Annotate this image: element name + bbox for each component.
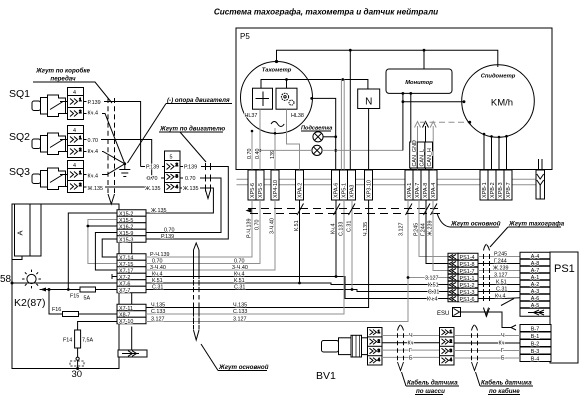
cabin cable band xyxy=(472,325,478,331)
wire Kch.4 from SQ2 xyxy=(84,152,125,164)
svg-text:ХРА-8: ХРА-8 xyxy=(423,183,429,198)
svg-text:ХР5-6: ХР5-6 xyxy=(250,183,256,198)
wire 3-Ch.40 row X7-17 xyxy=(146,200,275,270)
wire PS1-8 to A-8 xyxy=(478,263,520,265)
connector PS1-4 xyxy=(448,253,478,261)
P5 connector XP5-5 xyxy=(256,170,264,200)
engine harness end mark xyxy=(206,190,211,199)
terminal X7-17 xyxy=(117,267,146,275)
connector PS1-6 xyxy=(448,295,478,303)
wire G.244 from XPA-8 xyxy=(426,200,448,264)
k-line diagnostic wire xyxy=(237,178,537,180)
svg-text:0.70: 0.70 xyxy=(147,176,158,182)
svg-text:0.70: 0.70 xyxy=(88,138,99,144)
P5 connector XPA-1 xyxy=(405,170,413,200)
svg-text:PS1-6: PS1-6 xyxy=(460,297,475,303)
wire X7-10 to fuse F14 xyxy=(78,322,117,331)
terminal B-7 xyxy=(520,325,551,333)
CAN_L wire with arrow xyxy=(425,126,427,170)
svg-text:3.127: 3.127 xyxy=(425,276,439,282)
main harness band top mark xyxy=(194,243,200,250)
engine harness band ticks xyxy=(206,163,211,192)
svg-text:Ч.135: Ч.135 xyxy=(233,303,247,309)
terminal A-8 xyxy=(520,259,550,267)
svg-text:ХРА-4: ХРА-4 xyxy=(431,183,437,198)
wire Zh.239 from XPA-4 xyxy=(433,200,448,271)
indicator HL38 xyxy=(276,88,297,109)
svg-text:3-Ч.40: 3-Ч.40 xyxy=(232,265,248,271)
svg-text:Ч: Ч xyxy=(501,333,505,339)
sensor wire B xyxy=(382,356,440,358)
svg-text:К.51: К.51 xyxy=(428,283,439,289)
P5 connector XPA3 xyxy=(348,170,356,200)
svg-text:С.133: С.133 xyxy=(151,309,165,315)
svg-text:Ж.135: Ж.135 xyxy=(151,208,166,214)
svg-text:Г: Г xyxy=(501,348,504,354)
wire Zh.135 from SQ3 xyxy=(84,186,147,188)
block link wire xyxy=(131,293,133,305)
instrument harness arrow xyxy=(246,208,252,212)
svg-text:Р-Ч.139: Р-Ч.139 xyxy=(247,219,253,238)
wire X15-2 internal drop xyxy=(68,213,117,290)
wire A box to edge xyxy=(12,256,22,260)
wire Kch.4 from SQ1 xyxy=(84,114,125,164)
svg-text:Спидометр: Спидометр xyxy=(481,74,516,80)
wire F16 to X8-7 xyxy=(79,313,118,315)
wire monitor to XPA-1 xyxy=(410,93,412,170)
svg-text:ХРА3: ХРА3 xyxy=(350,185,356,198)
svg-text:по кабине: по кабине xyxy=(489,388,520,395)
svg-text:30: 30 xyxy=(72,369,83,380)
terminal X7-15 xyxy=(117,260,146,268)
wire P.139 after conn5 xyxy=(146,167,228,240)
terminal X15-2 xyxy=(117,210,146,218)
sensor connector block 2 xyxy=(440,328,455,366)
svg-text:Жгут основной: Жгут основной xyxy=(450,221,501,228)
diagnostic connector with chevrons xyxy=(536,170,545,199)
wire S.31 from XPA3 xyxy=(351,200,353,290)
terminal B-3 xyxy=(520,347,551,355)
junction twisted pair on feed bus xyxy=(341,78,344,81)
main harness vertical dashed band xyxy=(193,250,195,330)
main harness band row ticks xyxy=(194,254,200,324)
terminal B-1 xyxy=(520,332,551,340)
wire PS1-1 to A-1 xyxy=(478,277,520,279)
monitor box xyxy=(386,69,452,93)
terminal X15-5 xyxy=(117,216,146,224)
wire Kch.4 row X7-2 xyxy=(146,277,448,299)
switch SQ3 xyxy=(32,168,66,190)
svg-text:С.31: С.31 xyxy=(234,285,245,291)
ground 30 symbol xyxy=(70,361,84,366)
cabin wire B to B-4 xyxy=(454,357,520,359)
svg-text:3.127: 3.127 xyxy=(151,317,165,323)
svg-text:4: 4 xyxy=(73,128,76,134)
internal jumper X15-3 to X7-14 xyxy=(102,239,117,257)
chassis cable band xyxy=(398,325,404,331)
svg-text:3-Ч.40: 3-Ч.40 xyxy=(150,265,166,271)
cabin wire Ch to B-1 xyxy=(454,335,520,337)
svg-text:Жгут тахографа: Жгут тахографа xyxy=(508,221,565,228)
neutral indicator N box xyxy=(358,89,380,109)
svg-text:F14: F14 xyxy=(63,338,72,344)
svg-text:ХР4-10: ХР4-10 xyxy=(273,180,279,198)
connector PS1-1 xyxy=(448,274,478,282)
svg-text:Б: Б xyxy=(409,356,413,362)
block link wire xyxy=(131,242,133,254)
svg-text:ESU: ESU xyxy=(437,311,449,317)
wire K2 to fuse F15 xyxy=(49,289,80,291)
terminal X7-11 xyxy=(117,304,146,312)
wire P.245 from XPA-7 xyxy=(419,200,448,257)
internal jumper X15-9 to X7-17 xyxy=(95,233,117,271)
P5 connector XPA-7 xyxy=(413,170,421,200)
svg-text:К.51: К.51 xyxy=(496,280,507,286)
svg-text:3-Ч.40: 3-Ч.40 xyxy=(270,218,276,234)
svg-text:ХРА-2: ХРА-2 xyxy=(298,183,304,198)
svg-text:P5: P5 xyxy=(240,32,250,41)
wire K.51 row X7-6 xyxy=(146,283,448,285)
instrument harness dashed band xyxy=(248,208,440,210)
svg-text:Г.244: Г.244 xyxy=(494,259,507,265)
wire K2 down to F16 xyxy=(49,290,63,315)
output arrow connector box xyxy=(131,327,133,351)
fuse F16 xyxy=(63,312,79,317)
sensor wire Kch xyxy=(382,342,440,344)
terminal X15-9 xyxy=(117,229,146,237)
svg-text:SQ1: SQ1 xyxy=(9,88,30,100)
svg-text:С.31: С.31 xyxy=(347,221,353,232)
internal jumper X15-5/X16-2 to X7-15 xyxy=(88,220,117,264)
svg-text:(-) опора двигателя: (-) опора двигателя xyxy=(167,97,230,104)
svg-text:Кч: Кч xyxy=(499,341,505,347)
CAN_GND label box xyxy=(410,140,418,168)
wire P.139 before conn5 xyxy=(141,166,145,168)
svg-text:3.127: 3.127 xyxy=(494,273,508,279)
AC symbol xyxy=(271,122,284,127)
svg-text:Х7-7: Х7-7 xyxy=(119,288,130,294)
svg-text:SQ2: SQ2 xyxy=(9,131,30,143)
X7-2 terminator bar xyxy=(112,274,117,279)
terminal B-4 xyxy=(520,355,551,363)
terminal X15-3 xyxy=(117,236,146,244)
wire PS1-2 to A-2 xyxy=(478,284,520,286)
svg-text:F16: F16 xyxy=(52,307,61,313)
svg-text:Кч.4: Кч.4 xyxy=(495,294,505,300)
main harness band end mark xyxy=(194,330,200,340)
svg-text:С.31: С.31 xyxy=(496,287,507,293)
svg-text:0.70: 0.70 xyxy=(152,259,163,265)
svg-text:5А: 5А xyxy=(84,296,91,302)
backlight lamp 1 xyxy=(313,132,323,142)
P5 connector XPB-2 xyxy=(488,170,496,200)
connector block SQ1 xyxy=(60,88,84,120)
svg-text:передач: передач xyxy=(50,76,76,83)
terminal B-2 xyxy=(520,340,551,348)
terminal X7-10 xyxy=(117,317,146,325)
svg-text:Жгут по коробке: Жгут по коробке xyxy=(35,68,90,75)
svg-text:0.70: 0.70 xyxy=(247,149,253,160)
svg-text:Ж.135: Ж.135 xyxy=(183,186,198,192)
svg-text:BV1: BV1 xyxy=(316,370,336,382)
tachograph harness bundle marks xyxy=(484,244,490,251)
jog marks at wire crossings xyxy=(297,204,437,216)
terminal A-6 xyxy=(520,294,550,302)
P5 connector XPB-3 xyxy=(496,170,504,200)
wire PS1-7 to A-7 xyxy=(478,270,520,272)
fuse F15 xyxy=(80,287,96,292)
terminal X7-7 xyxy=(117,286,146,294)
tachometer circle xyxy=(241,62,313,134)
backlight lamp 2 xyxy=(312,145,322,155)
svg-text:Р.139: Р.139 xyxy=(161,234,174,240)
wire 0.70 row X7-15 xyxy=(146,200,260,264)
wire HL38 to XPA-2 xyxy=(287,109,300,170)
terminal X7-14 xyxy=(117,254,146,262)
wire HL37 to XP5-5 xyxy=(259,109,261,170)
engine connector 5 block xyxy=(165,151,181,193)
svg-text:58: 58 xyxy=(0,274,12,285)
terminal A-4 xyxy=(520,252,550,260)
engine mount ground junction xyxy=(123,162,126,165)
wire S.31 row X7-7 xyxy=(146,290,448,292)
wire 0.70 after conn5 xyxy=(146,178,221,233)
cabin wire Kch to B-2 xyxy=(454,342,520,344)
P5 connector XPA-2 xyxy=(296,170,304,200)
svg-text:Монитор: Монитор xyxy=(405,80,433,86)
wire P.139 from SQ1 xyxy=(84,102,141,167)
terminal A-5 xyxy=(520,301,550,309)
svg-text:Ж.135: Ж.135 xyxy=(145,186,160,192)
svg-text:0.70: 0.70 xyxy=(255,220,261,231)
wire F14 to ground 30 xyxy=(77,348,79,357)
svg-text:Жгут по двигателю: Жгут по двигателю xyxy=(159,126,226,133)
svg-text:по шасси: по шасси xyxy=(416,388,445,395)
svg-text:5: 5 xyxy=(170,155,173,161)
svg-text:ХРВ-7: ХРВ-7 xyxy=(506,182,512,198)
P5 connector XP5-1 xyxy=(340,170,348,200)
svg-text:K2(87): K2(87) xyxy=(14,297,46,309)
tach internal feed bus xyxy=(261,80,368,90)
terminal X7-6 xyxy=(117,280,146,288)
svg-text:ХРВ-3: ХРВ-3 xyxy=(498,182,504,198)
svg-text:HL38: HL38 xyxy=(291,113,304,119)
svg-text:Кч.4: Кч.4 xyxy=(427,297,437,303)
switch SQ1 xyxy=(32,95,66,117)
wire AC symbol to XP4-10 xyxy=(274,128,276,170)
wire PS1-3 to A-3 xyxy=(478,291,520,293)
terminal A-7 xyxy=(520,266,550,274)
connector PS1-2 xyxy=(448,281,478,289)
svg-text:N: N xyxy=(365,97,372,108)
wire 0.70 before conn5 xyxy=(146,177,152,179)
svg-text:4: 4 xyxy=(73,163,76,169)
svg-text:Кч.4: Кч.4 xyxy=(152,272,162,278)
svg-text:ХР5-1: ХР5-1 xyxy=(342,183,348,198)
ground engine mount xyxy=(119,164,130,177)
sensor connector block 1 xyxy=(368,328,383,366)
terminal A-1 xyxy=(520,273,550,281)
svg-text:4: 4 xyxy=(73,90,76,96)
P5 connector XPB-7 xyxy=(504,170,512,200)
svg-text:Ч: Ч xyxy=(409,333,413,339)
svg-text:ХР5-5: ХР5-5 xyxy=(258,183,264,198)
svg-text:Ж.239: Ж.239 xyxy=(493,266,508,272)
speed sensor BV1 xyxy=(322,335,368,357)
svg-text:SQ3: SQ3 xyxy=(9,166,30,178)
svg-text:Кч: Кч xyxy=(408,341,414,347)
terminal X16-2 xyxy=(117,223,146,231)
svg-text:Кабель датчика: Кабель датчика xyxy=(481,380,532,387)
svg-text:Р-Ч.139: Р-Ч.139 xyxy=(150,252,169,258)
wire Zh.135 after conn5 xyxy=(146,188,213,213)
svg-text:Кч.4: Кч.4 xyxy=(331,224,337,234)
wire F15 to X7-7 xyxy=(96,289,118,291)
connector PS1-3 xyxy=(448,288,478,296)
svg-text:Кабель датчика: Кабель датчика xyxy=(407,380,458,387)
svg-text:Кч.4: Кч.4 xyxy=(88,174,98,180)
wire tach to XP5-6 xyxy=(251,131,253,170)
P5 connector XP4-10 xyxy=(271,170,279,200)
wire ESU to B-7 xyxy=(461,312,512,328)
svg-text:К.51: К.51 xyxy=(152,278,163,284)
svg-text:Кч.4: Кч.4 xyxy=(88,149,98,155)
instrument cluster P5 box xyxy=(236,28,552,170)
svg-text:Р.245: Р.245 xyxy=(494,252,507,258)
CAN_L label box xyxy=(417,142,425,168)
svg-text:PS1: PS1 xyxy=(554,263,575,275)
fuse F14 xyxy=(75,330,81,348)
terminal X7-2 xyxy=(117,273,146,281)
connector PS1-8 xyxy=(448,260,478,268)
svg-text:А: А xyxy=(16,230,25,235)
svg-text:Ж.135: Ж.135 xyxy=(88,186,103,192)
switch SQ2 xyxy=(32,133,66,155)
svg-text:Х7-10: Х7-10 xyxy=(119,319,133,325)
wire tach edge down to XPA-6 xyxy=(313,98,336,170)
svg-text:3.127: 3.127 xyxy=(399,223,405,237)
l-line diagnostic wire xyxy=(237,184,537,186)
wire PS1-6 to A-6 xyxy=(478,298,505,300)
svg-text:7,5А: 7,5А xyxy=(82,338,93,344)
svg-text:Тахометр: Тахометр xyxy=(262,68,292,74)
relay contact arrow xyxy=(40,289,49,291)
body controller box xyxy=(12,204,119,369)
wire Kch.4 from SQ3 xyxy=(84,164,125,175)
svg-text:Ч.135: Ч.135 xyxy=(151,303,165,309)
wire jog to A-6 xyxy=(505,297,520,300)
wire 0.70 from SQ2 xyxy=(84,140,152,179)
wire K.51 from XPA-2 xyxy=(299,200,301,283)
dashed optional CAN link to speedometer xyxy=(420,121,470,123)
svg-text:Система тахографа, тахометра и: Система тахографа, тахометра и датчик не… xyxy=(214,8,438,17)
svg-text:Кч.4: Кч.4 xyxy=(234,272,244,278)
P5 connector XPA-6 xyxy=(332,170,340,200)
wire Kch.4 from XPA-6 xyxy=(335,200,337,277)
wire bus to monitor xyxy=(423,50,425,69)
speedometer output wires xyxy=(484,134,507,170)
svg-text:Ч.135: Ч.135 xyxy=(363,222,369,236)
svg-text:0.70: 0.70 xyxy=(185,176,196,182)
svg-text:0.70: 0.70 xyxy=(164,228,175,234)
wire S.133 row X8-7 xyxy=(146,200,344,314)
P5 connector XP3-10 xyxy=(365,170,373,200)
wire PS1-4 to A-4 xyxy=(478,256,520,258)
svg-text:В-4: В-4 xyxy=(531,357,539,363)
speedometer circle xyxy=(462,65,535,138)
svg-text:ХР3-10: ХР3-10 xyxy=(367,180,373,198)
svg-text:ХРА-6: ХРА-6 xyxy=(334,183,340,198)
svg-text:С.133: С.133 xyxy=(339,222,345,236)
svg-text:CAN_H: CAN_H xyxy=(427,148,433,166)
CAN_H wire with arrow xyxy=(432,126,434,170)
wire 3.127 branch to PS1-1 xyxy=(408,277,448,279)
svg-text:Р.139: Р.139 xyxy=(88,100,101,106)
svg-text:С.31: С.31 xyxy=(152,285,163,291)
svg-text:К.51: К.51 xyxy=(294,220,300,231)
wire Ch.135 row X7-11 xyxy=(146,200,369,308)
wire monitor to speedometer xyxy=(403,101,464,103)
svg-text:С.31: С.31 xyxy=(428,290,439,296)
cabin wire G to B-3 xyxy=(454,350,520,352)
svg-text:К.51: К.51 xyxy=(234,278,245,284)
P5 connector XPA-8 xyxy=(421,170,429,200)
wire N to XP3-10 xyxy=(368,109,370,171)
gearbox harness end mark xyxy=(108,194,115,204)
connector block SQ3 xyxy=(60,161,84,193)
P5 connector XPA-4 xyxy=(429,170,437,200)
gearbox harness dashed band xyxy=(107,98,109,193)
svg-text:139: 139 xyxy=(270,150,276,159)
svg-text:F15: F15 xyxy=(70,294,79,300)
svg-text:Жгут основной: Жгут основной xyxy=(218,364,269,371)
svg-text:Б: Б xyxy=(501,356,505,362)
indicator HL37 xyxy=(253,88,273,109)
wire P-Ch.139 row X7-14 xyxy=(146,200,252,257)
connector block SQ2 xyxy=(60,126,84,158)
top supply bus wire xyxy=(277,50,498,67)
wire bus to XPA3 xyxy=(349,50,351,170)
illumination wire lamps to monitor drop xyxy=(260,149,403,151)
svg-text:Р.139: Р.139 xyxy=(184,165,197,171)
wire 58 row to X7-6 xyxy=(12,282,117,284)
svg-text:ХРА-7: ХРА-7 xyxy=(415,183,421,198)
terminal A-2 xyxy=(520,280,550,288)
wire monitor to illumination xyxy=(402,93,404,150)
relay A box xyxy=(15,204,42,256)
receptacle chevron box xyxy=(520,308,550,316)
harness cable ticks xyxy=(484,254,490,301)
svg-text:С.133: С.133 xyxy=(233,309,247,315)
svg-text:Р.139: Р.139 xyxy=(146,165,159,171)
svg-text:Г: Г xyxy=(409,348,412,354)
sensor wire G xyxy=(382,349,440,351)
P5 connector XPB-1 xyxy=(480,170,488,200)
junction on bus xyxy=(349,49,352,52)
twisted pair wires to XP5-1 xyxy=(341,80,344,171)
CAN_GND wire with arrow xyxy=(417,126,419,170)
svg-text:Кч.4: Кч.4 xyxy=(88,111,98,117)
svg-text:ХРВ-1: ХРВ-1 xyxy=(482,182,488,198)
wire 3.127 row X7-10 xyxy=(146,200,408,322)
svg-text:ХРВ-2: ХРВ-2 xyxy=(490,182,496,198)
P5 connector XP5-6 xyxy=(248,170,256,200)
junctions on monitor bottom xyxy=(402,92,405,95)
tachograph PS1 box xyxy=(550,252,578,363)
terminal X8-7 xyxy=(117,311,146,319)
CAN_H label box xyxy=(425,142,433,168)
svg-text:3.127: 3.127 xyxy=(233,317,247,323)
